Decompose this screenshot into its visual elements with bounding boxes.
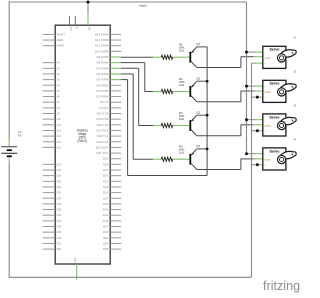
ground bus (x=251.5) [251, 63, 253, 277]
wire +5V tap to servo J2 [247, 85, 263, 87]
resistor R1 value label [179, 43, 185, 53]
svg-text:D49: D49 [103, 230, 109, 234]
wire +5V tap to servo J4 [247, 153, 263, 155]
svg-text:D11 PWM: D11 PWM [95, 44, 109, 48]
svg-text:pulse: pulse [264, 158, 271, 162]
resistor R3 value label [179, 111, 185, 121]
svg-text:D6 PWM: D6 PWM [96, 72, 109, 76]
svg-text:D45: D45 [103, 219, 109, 223]
resistor R1 leads [153, 56, 189, 58]
wire collector Q3 to servo pulse J2 [197, 91, 263, 102]
wire D5 to emitter bus [110, 80, 207, 176]
junction dot +5V bus J2 [245, 85, 248, 88]
pin stub VIN (top) [74, 16, 76, 25]
resistor R1 body [161, 55, 172, 59]
svg-text:A11: A11 [57, 124, 62, 127]
bend dot ground tap J4 [256, 163, 259, 166]
svg-text:D3 PWM: D3 PWM [96, 89, 109, 93]
wire emitter Q1 to bus [197, 148, 208, 150]
svg-text:1: 1 [264, 154, 265, 156]
svg-text:3: 3 [264, 165, 265, 167]
wire +5V tap to servo J3 [247, 119, 263, 121]
svg-text:J3: J3 [293, 103, 296, 107]
wire +5V tap to servo J1 [247, 51, 263, 53]
svg-text:D20 SDA: D20 SDA [96, 145, 109, 149]
svg-text:D47: D47 [103, 225, 109, 229]
resistor R2 leads [153, 91, 189, 93]
wire Arduino GND bottom pin [76, 264, 78, 280]
svg-text:D35: D35 [103, 191, 109, 195]
svg-text:D33: D33 [103, 185, 109, 189]
svg-text:D1 TX: D1 TX [100, 100, 108, 104]
resistor R3 leads [153, 125, 189, 127]
wire emitter Q4 to bus [197, 46, 208, 48]
svg-text:5V: 5V [18, 134, 22, 138]
svg-text:1: 1 [264, 120, 265, 122]
resistor R4 leads [153, 158, 189, 160]
Arduino right pin stubs + labels [95, 32, 121, 251]
svg-text:D31: D31 [103, 179, 109, 183]
svg-text:D5 PWM: D5 PWM [96, 78, 109, 82]
junction dot +5V bus J4 [245, 152, 248, 155]
svg-text:IOREF: IOREF [57, 45, 65, 48]
svg-text:D55: D55 [103, 247, 109, 251]
svg-text:Servo: Servo [270, 48, 281, 52]
transistor Q1 [189, 149, 196, 169]
svg-text:D18 TX1: D18 TX1 [97, 134, 109, 138]
wire battery- drop [8, 163, 10, 277]
svg-text:D7 PWM: D7 PWM [96, 66, 109, 70]
wire ground tap to servo J1 [252, 62, 263, 64]
svg-text:Q2: Q2 [196, 111, 200, 115]
wire emitter Q2 to bus [197, 114, 208, 116]
svg-text:(Rev3): (Rev3) [77, 139, 87, 143]
pin stub 3V3 (top) [69, 16, 71, 25]
svg-text:D25: D25 [103, 162, 109, 166]
wire ground tap to servo J4 [252, 164, 263, 166]
svg-text:1: 1 [264, 86, 265, 88]
resistor R4 body [161, 157, 172, 161]
svg-text:pulse: pulse [264, 90, 271, 94]
svg-text:Servo: Servo [270, 82, 281, 86]
svg-text:D23: D23 [103, 157, 109, 161]
svg-text:D52: D52 [57, 248, 62, 251]
svg-text:D43: D43 [103, 213, 109, 217]
svg-text:RESET: RESET [57, 33, 66, 36]
svg-text:1kΩ: 1kΩ [179, 151, 184, 155]
svg-text:1: 1 [264, 52, 265, 54]
resistor R2 value label [179, 77, 185, 87]
emitter bus (x=207) [206, 47, 208, 176]
resistor R4 value label [179, 145, 185, 155]
servo J3 body [263, 114, 286, 136]
top pin labels (rotated) [69, 26, 91, 31]
svg-text:D26: D26 [57, 175, 62, 178]
junction dot +5V bus J3 [245, 118, 248, 121]
wire Arduino 5V top pin to +5V rail [87, 2, 89, 25]
svg-text:D42: D42 [57, 220, 62, 223]
battery V1 [1, 139, 17, 163]
wire bottom ground rail [9, 276, 252, 278]
svg-text:D46: D46 [57, 231, 62, 234]
junction dot +5V bus J1 [245, 51, 248, 54]
svg-text:D27: D27 [103, 168, 109, 172]
svg-text:D41: D41 [103, 208, 109, 212]
svg-text:1kΩ: 1kΩ [179, 49, 184, 53]
svg-text:J4: J4 [293, 137, 296, 141]
svg-text:D40: D40 [57, 214, 62, 217]
wire D7 to R3 (row 3) [110, 68, 153, 125]
resistor R2 body [161, 89, 172, 93]
bend dot ground tap J3 [256, 129, 259, 132]
servo J2 body [263, 80, 286, 102]
svg-text:D50: D50 [57, 242, 62, 245]
svg-text:A14: A14 [57, 141, 62, 144]
svg-text:Servo: Servo [270, 115, 281, 119]
wire ground tap to servo J2 [252, 96, 263, 98]
svg-text:D30: D30 [57, 186, 62, 189]
wire ground tap to servo J3 [252, 130, 263, 132]
resistor R3 body [161, 123, 172, 127]
svg-text:D34: D34 [57, 197, 62, 200]
svg-text:fritzing: fritzing [263, 279, 300, 293]
bend dot ground tap J2 [256, 96, 259, 99]
svg-text:pulse: pulse [264, 56, 271, 60]
svg-text:D22: D22 [57, 163, 62, 166]
svg-text:1kΩ: 1kΩ [179, 117, 184, 121]
svg-text:AREF: AREF [57, 39, 64, 42]
junction dots on emitter bus [206, 80, 209, 151]
transistor Q4 [189, 47, 196, 67]
wire D8 to R2 (row 2) [110, 63, 153, 92]
svg-text:Part1: Part1 [139, 4, 147, 8]
svg-text:D48: D48 [57, 237, 62, 240]
wire collector Q1 to servo pulse J4 [197, 159, 263, 170]
svg-text:5V: 5V [75, 26, 78, 29]
svg-text:A10: A10 [57, 118, 62, 121]
svg-text:D37: D37 [103, 196, 109, 200]
wire battery+ riser [8, 2, 10, 139]
svg-text:D32: D32 [57, 192, 62, 195]
svg-text:D8 PWM: D8 PWM [96, 61, 109, 65]
svg-text:D44: D44 [57, 226, 62, 229]
svg-text:D17 RX2: D17 RX2 [96, 128, 109, 132]
+5V bus (x=246.5) [246, 2, 248, 154]
svg-text:3: 3 [264, 63, 265, 65]
Arduino left pin stubs + labels [43, 33, 66, 251]
svg-text:D2 PWM: D2 PWM [96, 95, 109, 99]
svg-text:Q4: Q4 [196, 42, 200, 46]
svg-text:D9 PWM: D9 PWM [96, 55, 109, 59]
svg-text:D29: D29 [103, 174, 109, 178]
svg-text:A12: A12 [57, 129, 62, 132]
svg-text:J2: J2 [293, 70, 296, 74]
svg-text:D16 TX2: D16 TX2 [97, 123, 109, 127]
svg-text:D28: D28 [57, 180, 62, 183]
svg-text:1kΩ: 1kΩ [179, 83, 184, 87]
battery label V1 5V [18, 130, 22, 138]
servo J2 horn icon [278, 84, 297, 96]
transistor Q3 [189, 81, 196, 101]
svg-text:D10 PWM: D10 PWM [95, 49, 109, 53]
wire D6 to R4 (row 4) [110, 74, 153, 159]
svg-text:D4 PWM: D4 PWM [96, 83, 109, 87]
wire top +5V rail [9, 1, 247, 3]
IC U1 Arduino Mega 2560 body [55, 25, 110, 264]
svg-text:D12 PWM: D12 PWM [95, 38, 109, 42]
svg-text:Q3: Q3 [196, 77, 200, 81]
wire collector Q2 to servo pulse J3 [197, 125, 263, 136]
servo J4 body [263, 148, 286, 170]
transistor Q2 [189, 115, 196, 135]
svg-text:J1: J1 [293, 36, 296, 40]
svg-text:D13 PWM: D13 PWM [95, 32, 109, 36]
svg-text:GND: GND [74, 257, 77, 263]
svg-text:VIN: VIN [87, 26, 90, 30]
wire D9 to R1 (row 1) [110, 56, 153, 58]
svg-text:D0 RX: D0 RX [100, 106, 109, 110]
svg-text:A15: A15 [57, 146, 62, 149]
Arduino center label [77, 129, 88, 143]
svg-text:D19 RX1: D19 RX1 [96, 140, 109, 144]
junction dot on +5V rail [87, 1, 90, 4]
wire emitter Q3 to bus [197, 80, 208, 82]
svg-text:pulse: pulse [264, 124, 271, 128]
svg-text:D38: D38 [57, 209, 62, 212]
svg-text:D14 TX3: D14 TX3 [97, 112, 109, 116]
svg-text:Servo: Servo [270, 149, 281, 153]
svg-text:A13: A13 [57, 135, 62, 138]
svg-text:3: 3 [264, 131, 265, 133]
svg-text:D15 RX3: D15 RX3 [96, 117, 109, 121]
servo J4 horn icon [278, 151, 297, 163]
svg-text:D24: D24 [57, 169, 62, 172]
svg-text:Q1: Q1 [196, 144, 200, 148]
servo J1 body [263, 46, 286, 68]
servo J3 horn icon [278, 117, 297, 129]
svg-text:D51: D51 [103, 236, 109, 240]
svg-text:3: 3 [264, 97, 265, 99]
wire collector Q4 to servo pulse J1 [197, 57, 263, 68]
servo J1 horn icon [278, 50, 297, 62]
svg-text:D53: D53 [103, 241, 109, 245]
svg-text:D39: D39 [103, 202, 109, 206]
svg-text:3V3: 3V3 [69, 26, 72, 31]
svg-text:D36: D36 [57, 203, 62, 206]
svg-text:D21 SCL: D21 SCL [96, 151, 109, 155]
